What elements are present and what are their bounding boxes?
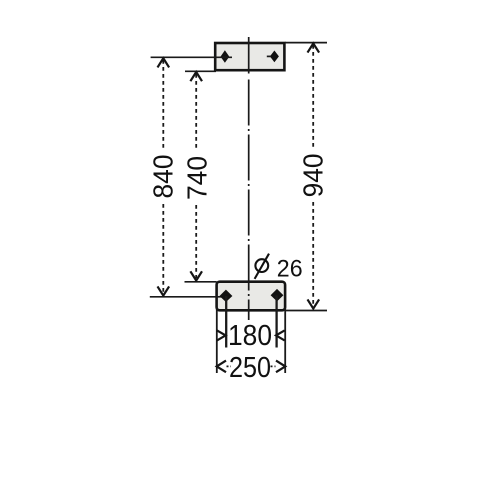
740 extension line top [185,70,216,72]
940 extension line top [285,42,327,44]
dim line 840 [162,60,164,293]
label diameter symbol [255,254,269,279]
top plate right hole stub [267,55,271,57]
dim 940 arrow up [308,43,320,52]
svg-text:26: 26 [277,255,303,282]
dim line 740 [195,74,197,278]
dim 250 stub right [271,365,276,367]
top plate left hole [221,50,230,62]
bottom plate right anchor [271,289,284,302]
250 extension line right [284,307,286,373]
top plate [215,43,284,70]
bottom plate right anchor line [275,295,277,347]
svg-text:840: 840 [148,155,179,199]
dim 180 arrow right [276,330,285,340]
dim 740 arrow up [190,72,202,81]
svg-text:250: 250 [229,352,271,384]
dim 940 arrow down [308,299,320,308]
dim line 940 [312,45,314,306]
dim 180 arrow left [217,330,226,340]
centerline upper segment [248,37,250,74]
dim 250 stub left [227,365,232,367]
dim 840 arrow down [158,286,170,295]
bottom plate [217,282,286,311]
svg-text:940: 940 [297,153,328,197]
centerline dash-dot run [248,80,250,321]
840 extension line bottom [150,296,223,298]
top plate left hole centerline [151,56,232,58]
svg-text:180: 180 [228,320,272,352]
250 extension line left [216,307,218,373]
bottom plate left anchor [220,290,233,302]
dim 840 arrow up [158,58,170,67]
top plate right hole [270,51,279,63]
740 extension line bottom [185,281,217,283]
dim 250 arrow right [276,361,285,373]
940 extension line bottom [285,310,327,312]
dim 740 arrow down [190,271,202,280]
svg-text:740: 740 [182,156,213,200]
bottom plate left anchor line [225,296,227,348]
dim 250 arrow left [217,361,226,373]
